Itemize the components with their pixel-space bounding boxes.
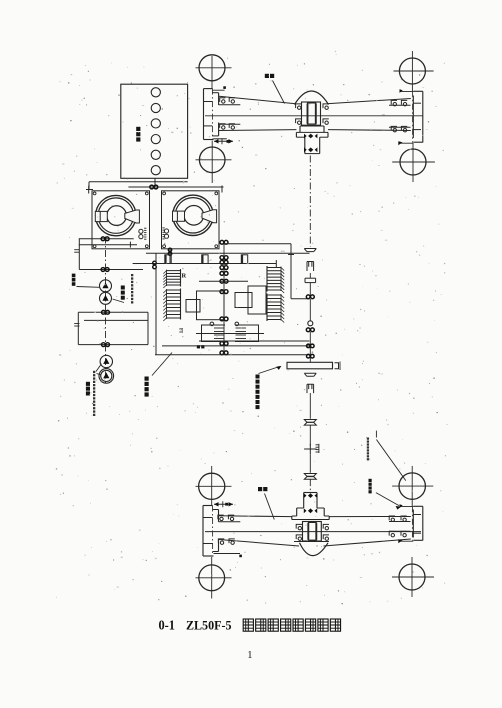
svg-text:ZL50F-5: ZL50F-5	[186, 618, 232, 633]
svg-text:1: 1	[247, 650, 252, 661]
svg-text:0-1: 0-1	[159, 618, 176, 633]
svg-text:FI: FI	[178, 328, 183, 333]
svg-text:R: R	[182, 273, 187, 280]
